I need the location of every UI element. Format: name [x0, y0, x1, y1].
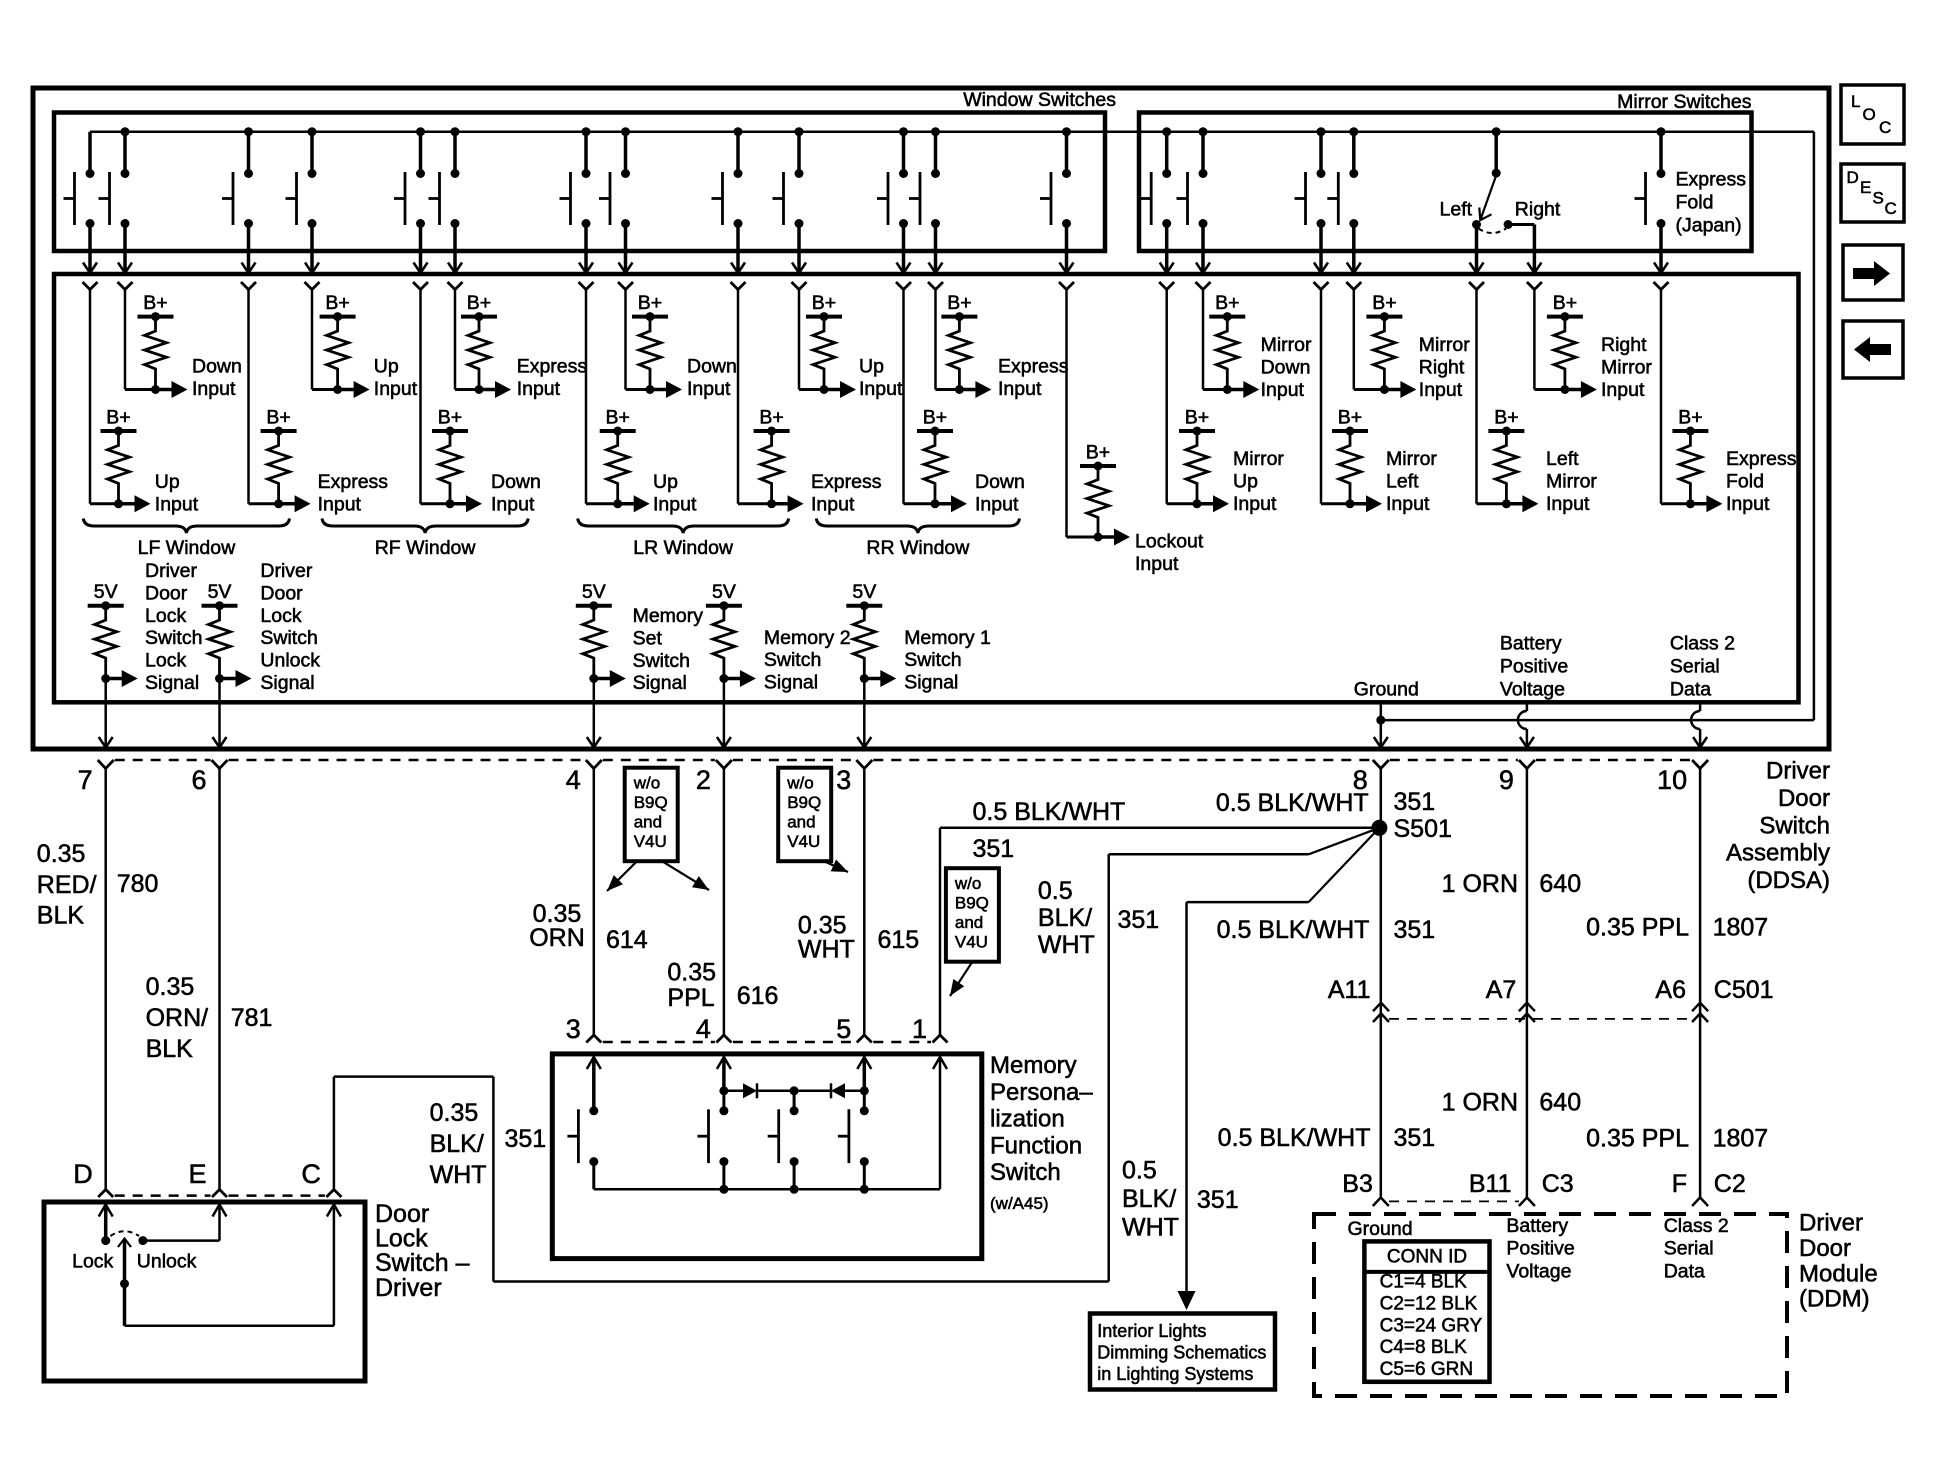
wire: ground circuit 351 pin 8 through S501 to A11/B3 [1380, 768, 1383, 1198]
svg-text:PPL: PPL [667, 984, 714, 1012]
switch: left/right mirror selector [1470, 127, 1542, 273]
svg-text:Switch: Switch [260, 627, 317, 649]
wire: door lock common to C [125, 1205, 341, 1326]
svg-text:9: 9 [1499, 765, 1514, 795]
svg-text:w/o: w/o [633, 774, 660, 793]
label: circuit 781 [231, 1004, 273, 1032]
svg-text:C2=12 BLK: C2=12 BLK [1380, 1293, 1478, 1314]
diode D2 (points left) [794, 1083, 864, 1098]
nav button: back arrow [1843, 321, 1903, 378]
svg-text:(Japan): (Japan) [1676, 215, 1742, 237]
svg-text:Dimming Schematics: Dimming Schematics [1097, 1343, 1266, 1363]
svg-text:5: 5 [836, 1014, 851, 1044]
svg-text:781: 781 [231, 1004, 273, 1032]
box: Door Lock Switch - Driver [44, 1202, 365, 1381]
label: Window Switches [963, 89, 1116, 111]
svg-text:351: 351 [1394, 788, 1436, 816]
svg-text:C1=4 BLK: C1=4 BLK [1380, 1272, 1467, 1293]
svg-text:Serial: Serial [1670, 656, 1720, 678]
svg-text:351: 351 [1118, 906, 1160, 934]
svg-text:Down: Down [687, 356, 737, 378]
svg-text:RR Window: RR Window [866, 537, 970, 559]
wire: circuit 780 (0.35 RED/BLK) pin 7 to D [98, 768, 113, 1198]
svg-text:BLK/: BLK/ [430, 1130, 484, 1158]
label: circuit 614 [606, 926, 648, 954]
svg-text:Mirror: Mirror [1233, 448, 1284, 470]
label: 0.5 BLK/WHT 351 (S501 to interior lights) [1217, 916, 1436, 944]
svg-text:2: 2 [696, 765, 711, 795]
svg-text:5V: 5V [208, 581, 232, 603]
wire: S501 branch to door lock switch C (0.5/0.35 BLK/WHT 351) [326, 828, 1379, 1282]
svg-text:0.35: 0.35 [146, 973, 195, 1001]
connector row to memory switch (pins 3,4,5,1) dashed [603, 1041, 931, 1044]
diode D1 (points right) [724, 1083, 794, 1098]
label: circuit 780 [117, 870, 159, 898]
svg-text:1 ORN: 1 ORN [1442, 870, 1518, 898]
door lock switch pin C [301, 1159, 321, 1189]
svg-text:B+: B+ [467, 292, 491, 314]
label: circuit 616 [737, 982, 779, 1010]
resistor: driver door lock switch unlock signal 5V pull-up [202, 560, 321, 748]
svg-text:Memory 2: Memory 2 [764, 627, 851, 649]
svg-text:Driver: Driver [1766, 758, 1830, 785]
svg-text:C2: C2 [1714, 1170, 1746, 1198]
svg-text:Unlock: Unlock [137, 1251, 197, 1273]
label: 0.35 PPL 1807 (upper) [1586, 914, 1768, 942]
connector entry and wire at x=1476.5 into resistor box [1469, 282, 1484, 504]
svg-text:5V: 5V [94, 581, 118, 603]
svg-text:Mirror: Mirror [1601, 356, 1652, 378]
svg-text:Down: Down [192, 356, 242, 378]
wire: S501 branch to memory pin 1 (0.5 BLK/WHT 351) [933, 828, 1380, 1043]
svg-text:WHT: WHT [430, 1161, 487, 1189]
svg-text:1807: 1807 [1713, 1125, 1769, 1153]
node: diode bus middle junction [790, 1086, 799, 1111]
pin 10 of DDSA connector [1657, 760, 1708, 795]
svg-text:351: 351 [973, 835, 1015, 863]
svg-text:Door: Door [145, 582, 188, 604]
svg-text:WHT: WHT [798, 936, 855, 964]
svg-text:Up: Up [1233, 470, 1258, 492]
svg-text:3: 3 [566, 1014, 581, 1044]
label: Ground (DDM) [1348, 1218, 1413, 1240]
svg-text:LF Window: LF Window [138, 537, 236, 559]
svg-text:and: and [955, 913, 983, 932]
svg-text:Positive: Positive [1500, 656, 1568, 678]
svg-text:C4=8 BLK: C4=8 BLK [1380, 1337, 1467, 1358]
wire: circuit 616 (0.35 PPL) pin 2 to memory pin 4 [716, 768, 731, 1043]
resistor: LR window down input pull-up [626, 292, 737, 400]
svg-text:4: 4 [566, 765, 581, 795]
connector entry and wire at x=1534.4 into resistor box [1527, 282, 1542, 390]
svg-text:Right: Right [1515, 199, 1561, 221]
resistor: LF window up input pull-up [90, 407, 199, 516]
svg-text:B+: B+ [947, 292, 971, 314]
svg-text:Express: Express [1726, 448, 1797, 470]
qualifier box: w/o B9Q and V4U (pins 4/2) [607, 768, 709, 891]
connector row at DDM: B11 / C3 [1469, 1170, 1574, 1206]
label: 0.5 BLK/WHT 351 (to interior lights lower) [1122, 1157, 1239, 1242]
svg-text:Down: Down [975, 471, 1025, 493]
resistor: RR window express input pull-up [936, 292, 1069, 400]
svg-text:Data: Data [1664, 1260, 1705, 1282]
svg-text:Window Switches: Window Switches [963, 89, 1116, 111]
wire: battery positive voltage drop with hop [1518, 702, 1534, 747]
label: C501 [1714, 976, 1774, 1004]
svg-text:Class 2: Class 2 [1664, 1215, 1729, 1237]
svg-text:Voltage: Voltage [1506, 1260, 1571, 1282]
svg-text:L: L [1851, 92, 1860, 111]
svg-text:351: 351 [1394, 1124, 1436, 1152]
connector entry and wire at x=420.5 into resistor box [413, 282, 428, 504]
label: circuit 615 [878, 926, 920, 954]
connector pin A7 [1486, 976, 1535, 1022]
table: CONN ID [1364, 1241, 1489, 1381]
connector entry and wire at x=1353.8 into resistor box [1346, 282, 1361, 390]
svg-text:0.5: 0.5 [1122, 1157, 1157, 1185]
svg-text:and: and [634, 813, 662, 832]
label: Class 2 Serial Data [1670, 633, 1735, 701]
svg-text:E: E [1860, 178, 1871, 197]
pin 6 of DDSA connector [191, 760, 227, 795]
svg-text:351: 351 [1394, 916, 1436, 944]
svg-text:WHT: WHT [1122, 1214, 1179, 1242]
svg-text:Input: Input [374, 378, 418, 400]
switch: LF window up switch [64, 132, 98, 273]
splice S501 [1371, 820, 1387, 836]
switch: LR window down switch [599, 127, 633, 273]
reference box: Interior Lights Dimming Schematics in Lighting Systems [1090, 1314, 1275, 1390]
resistor: LF window down input pull-up [125, 292, 242, 400]
svg-text:C3: C3 [1542, 1170, 1574, 1198]
svg-text:Down: Down [1261, 356, 1311, 378]
label: Driver Door Switch Assembly (DDSA) [1726, 758, 1830, 895]
svg-text:Signal: Signal [633, 672, 687, 694]
svg-text:S: S [1873, 189, 1884, 208]
svg-text:V4U: V4U [787, 832, 820, 851]
wire: D entry to lock contact [99, 1205, 113, 1246]
resistor: memory set switch signal 5V pull-up [576, 581, 703, 747]
resistor: LF window express input pull-up [249, 407, 389, 516]
svg-text:V4U: V4U [955, 932, 988, 951]
nav button: next arrow [1843, 245, 1903, 300]
svg-text:V4U: V4U [634, 832, 667, 851]
svg-text:B+: B+ [1372, 292, 1396, 314]
svg-text:B+: B+ [638, 292, 662, 314]
svg-text:Input: Input [998, 378, 1042, 400]
brace: LF Window group [83, 519, 289, 560]
wire: class 2 serial data drop with hop [1691, 702, 1707, 747]
svg-text:3: 3 [836, 765, 851, 795]
connector pin A6 [1655, 976, 1708, 1022]
svg-text:Express: Express [811, 471, 882, 493]
svg-text:Lock: Lock [260, 605, 301, 627]
svg-text:1807: 1807 [1713, 914, 1769, 942]
svg-text:Mirror: Mirror [1546, 470, 1597, 492]
svg-text:O: O [1863, 105, 1876, 124]
label: 0.35 ORN/BLK [146, 973, 209, 1063]
svg-text:Input: Input [811, 493, 855, 515]
svg-text:B9Q: B9Q [634, 793, 668, 812]
svg-text:Module: Module [1799, 1260, 1878, 1287]
svg-text:Up: Up [155, 471, 180, 493]
svg-text:615: 615 [878, 926, 920, 954]
svg-text:Input: Input [1726, 493, 1770, 515]
svg-text:Signal: Signal [904, 672, 958, 694]
svg-text:780: 780 [117, 870, 159, 898]
resistor: RR window down input pull-up [904, 407, 1025, 516]
label: 0.35 PPL [667, 959, 716, 1013]
svg-text:B+: B+ [605, 407, 629, 429]
switch: RR window up switch [773, 127, 807, 273]
svg-text:lization: lization [990, 1106, 1065, 1133]
label: Express Fold (Japan) [1676, 169, 1747, 237]
connector entry and wire at x=90 into resistor box [83, 282, 98, 504]
switch: memory set switch [567, 1106, 598, 1189]
svg-text:Fold: Fold [1676, 192, 1714, 214]
svg-text:Switch: Switch [990, 1159, 1061, 1186]
svg-text:0.5 BLK/WHT: 0.5 BLK/WHT [1217, 916, 1370, 944]
resistor: memory 1 switch signal 5V pull-up [846, 581, 991, 747]
svg-text:Interior Lights: Interior Lights [1097, 1321, 1206, 1341]
connector entry and wire at x=248.5 into resistor box [241, 282, 256, 504]
svg-text:Driver: Driver [260, 560, 313, 582]
svg-text:B+: B+ [1553, 292, 1577, 314]
svg-text:Up: Up [859, 356, 884, 378]
svg-text:Express: Express [998, 356, 1069, 378]
svg-text:C: C [1885, 199, 1897, 218]
svg-text:C501: C501 [1714, 976, 1774, 1004]
svg-text:Memory: Memory [633, 605, 704, 627]
wire: memory switch pin 3 entry [587, 1057, 601, 1111]
nav button: DESC [1841, 164, 1904, 222]
svg-text:Express: Express [517, 356, 588, 378]
switch: mirror down switch [1177, 127, 1211, 273]
switch: memory 1 switch (middle) [768, 1106, 799, 1189]
resistor: LR window express input pull-up [738, 407, 882, 516]
wire: S501 branch to interior lights dimming (0.5 BLK/WHT 351) [1178, 828, 1380, 1310]
svg-text:Input: Input [687, 378, 731, 400]
svg-text:5V: 5V [852, 581, 876, 603]
door lock switch pin D [73, 1159, 93, 1189]
wire: B+/common bus across switch boxes [90, 130, 1814, 133]
svg-text:B+: B+ [106, 407, 130, 429]
label: Driver Door Module (DDM) [1799, 1210, 1878, 1313]
svg-text:0.5 BLK/WHT: 0.5 BLK/WHT [973, 798, 1126, 826]
switch: mirror right switch [1327, 127, 1361, 273]
svg-text:Fold: Fold [1726, 470, 1764, 492]
qualifier box: w/o B9Q and V4U (pin 3) [778, 768, 848, 872]
svg-text:5V: 5V [712, 581, 736, 603]
svg-text:D: D [73, 1159, 93, 1189]
svg-text:640: 640 [1539, 1089, 1581, 1117]
svg-text:0.35: 0.35 [37, 840, 86, 868]
svg-text:S501: S501 [1394, 815, 1452, 843]
svg-text:Driver: Driver [145, 560, 198, 582]
label: 0.5 BLK/WHT 351 (A11 to B3 segment) [1218, 1124, 1436, 1152]
svg-text:Mirror Switches: Mirror Switches [1617, 91, 1752, 113]
svg-text:Express: Express [318, 471, 389, 493]
svg-text:0.35 PPL: 0.35 PPL [1586, 1125, 1689, 1153]
switch: LF window down switch [99, 127, 133, 273]
svg-text:RF Window: RF Window [375, 537, 477, 559]
label: 0.35 WHT [798, 911, 855, 963]
connector entry and wire at x=125 into resistor box [118, 282, 133, 390]
svg-text:Input: Input [653, 493, 697, 515]
svg-text:Lock: Lock [72, 1251, 113, 1273]
svg-text:Signal: Signal [764, 672, 818, 694]
svg-text:Signal: Signal [145, 672, 199, 694]
svg-text:w/o: w/o [786, 774, 813, 793]
svg-text:Driver: Driver [375, 1274, 442, 1302]
svg-text:w/o: w/o [954, 874, 981, 893]
svg-text:B11: B11 [1469, 1170, 1512, 1198]
svg-text:Input: Input [1601, 379, 1645, 401]
nav button: LOC [1841, 85, 1904, 144]
wire: circuit 615 (0.35 WHT) pin 3 to memory pin 5 [857, 768, 872, 1043]
svg-text:614: 614 [606, 926, 648, 954]
svg-text:CONN ID: CONN ID [1387, 1247, 1467, 1268]
svg-text:Left: Left [1386, 470, 1419, 492]
brace: LR Window group [578, 519, 789, 560]
connector entry and wire at x=1203 into resistor box [1196, 282, 1211, 390]
svg-text:Input: Input [1261, 379, 1305, 401]
svg-text:Right: Right [1419, 356, 1465, 378]
svg-text:BLK/: BLK/ [1038, 904, 1092, 932]
svg-text:351: 351 [505, 1125, 547, 1153]
svg-text:Mirror: Mirror [1386, 448, 1437, 470]
svg-text:BLK/: BLK/ [1122, 1185, 1176, 1213]
switch: RR window express switch [909, 127, 943, 273]
svg-text:B+: B+ [1185, 407, 1209, 429]
pin 3 of DDSA connector [836, 760, 872, 795]
label: 0.35 RED/BLK [37, 840, 97, 930]
connector entry and wire at x=455 into resistor box [448, 282, 463, 390]
svg-text:Lock: Lock [145, 650, 186, 672]
svg-text:B+: B+ [325, 292, 349, 314]
label: Left [1440, 199, 1473, 221]
svg-text:616: 616 [737, 982, 779, 1010]
svg-text:Memory 1: Memory 1 [904, 627, 991, 649]
box: Memory Personalization Function Switch [552, 1054, 982, 1259]
svg-text:Assembly: Assembly [1726, 840, 1830, 867]
svg-text:B+: B+ [1678, 407, 1702, 429]
connector row C501 dashed line [115, 759, 1691, 762]
box: Driver Door Module (DDM) dashed outline [1314, 1214, 1787, 1396]
switch: LR window express switch [712, 127, 746, 273]
wire: circuit 614 (0.35 ORN) pin 4 to memory pin 3 [586, 768, 601, 1043]
svg-text:B+: B+ [1494, 407, 1518, 429]
svg-text:ORN/: ORN/ [146, 1004, 209, 1032]
svg-text:Input: Input [1386, 493, 1430, 515]
svg-text:B+: B+ [923, 407, 947, 429]
connector entry and wire at x=1066.5 into resistor box [1059, 282, 1074, 537]
label: 0.35 ORN [529, 900, 585, 952]
svg-text:0.5: 0.5 [1038, 877, 1073, 905]
svg-text:Input: Input [1233, 493, 1277, 515]
switch: LR window up switch [560, 127, 594, 273]
connector C501 dashed line (A row) [1389, 1018, 1689, 1020]
resistor: mirror up input pull-up [1167, 407, 1285, 515]
svg-text:Persona–: Persona– [990, 1079, 1093, 1106]
svg-text:RED/: RED/ [37, 871, 97, 899]
label: 0.35 PPL 1807 (lower) [1586, 1125, 1768, 1153]
svg-text:Door: Door [260, 582, 303, 604]
memory switch pin 4 [696, 1014, 711, 1044]
resistor: mirror left input pull-up [1321, 407, 1437, 515]
svg-text:Function: Function [990, 1132, 1082, 1159]
svg-text:Switch: Switch [1759, 812, 1830, 839]
wire: memory switch pin 4 entry [717, 1057, 731, 1091]
pin 2 of DDSA connector [696, 760, 732, 795]
switch: memory 2 switch [698, 1106, 729, 1189]
svg-text:Lockout: Lockout [1135, 531, 1204, 553]
svg-text:B+: B+ [1086, 442, 1110, 464]
wire: E entry to unlock contact [138, 1205, 226, 1246]
svg-text:Voltage: Voltage [1500, 679, 1565, 701]
resistor: RR window up input pull-up [799, 292, 903, 400]
svg-text:7: 7 [78, 765, 93, 795]
svg-text:BLK: BLK [146, 1035, 194, 1063]
inner component box of DDSA (resistor network box) [54, 274, 1799, 702]
svg-text:Input: Input [491, 493, 535, 515]
svg-text:Lock: Lock [145, 605, 186, 627]
svg-text:B+: B+ [143, 292, 167, 314]
resistor: LR window up input pull-up [586, 407, 697, 516]
resistor: memory 2 switch signal 5V pull-up [706, 581, 851, 747]
resistor: driver door lock switch lock signal 5V pull-up [88, 560, 203, 748]
svg-text:Switch: Switch [904, 649, 961, 671]
svg-text:Class 2: Class 2 [1670, 633, 1735, 655]
svg-text:(DDSA): (DDSA) [1747, 867, 1830, 894]
node: diode bus left junction [719, 1086, 728, 1111]
svg-text:Ground: Ground [1354, 679, 1419, 701]
node: diode bus right junction [860, 1086, 869, 1111]
svg-text:Input: Input [1419, 379, 1463, 401]
svg-text:Signal: Signal [260, 672, 314, 694]
switch: RF window up switch [286, 127, 320, 273]
svg-text:1: 1 [912, 1014, 927, 1044]
connector row at DDM: B3 [1342, 1170, 1519, 1206]
connector entry and wire at x=799 into resistor box [792, 282, 807, 390]
label: 1 ORN 640 (lower) [1442, 1089, 1582, 1117]
svg-text:0.35 PPL: 0.35 PPL [1586, 914, 1689, 942]
switch: lockout switch [1040, 127, 1074, 273]
resistor: express fold input pull-up [1661, 407, 1797, 515]
svg-text:B+: B+ [438, 407, 462, 429]
svg-text:Left: Left [1440, 199, 1473, 221]
svg-text:F: F [1672, 1170, 1687, 1198]
svg-text:640: 640 [1539, 870, 1581, 898]
svg-text:Down: Down [491, 471, 541, 493]
svg-text:ORN: ORN [529, 924, 585, 952]
svg-text:Driver: Driver [1799, 1210, 1863, 1237]
svg-text:Up: Up [374, 356, 399, 378]
svg-text:6: 6 [191, 765, 206, 795]
wire: circuit 781 (0.35 ORN/BLK) pin 6 to E [212, 768, 227, 1198]
svg-text:Door: Door [1799, 1235, 1851, 1262]
wire: bus return down right side to ground node [1381, 132, 1814, 720]
svg-text:A11: A11 [1328, 976, 1371, 1004]
svg-text:1 ORN: 1 ORN [1442, 1089, 1518, 1117]
svg-text:B3: B3 [1342, 1170, 1373, 1198]
svg-text:0.5 BLK/WHT: 0.5 BLK/WHT [1218, 1124, 1371, 1152]
svg-text:Data: Data [1670, 679, 1711, 701]
resistor: mirror right input pull-up [1354, 292, 1470, 401]
switch: door lock selector lever [111, 1231, 140, 1326]
label: Door Lock Switch - Driver [375, 1200, 470, 1302]
resistor: left mirror input pull-up [1477, 407, 1598, 515]
